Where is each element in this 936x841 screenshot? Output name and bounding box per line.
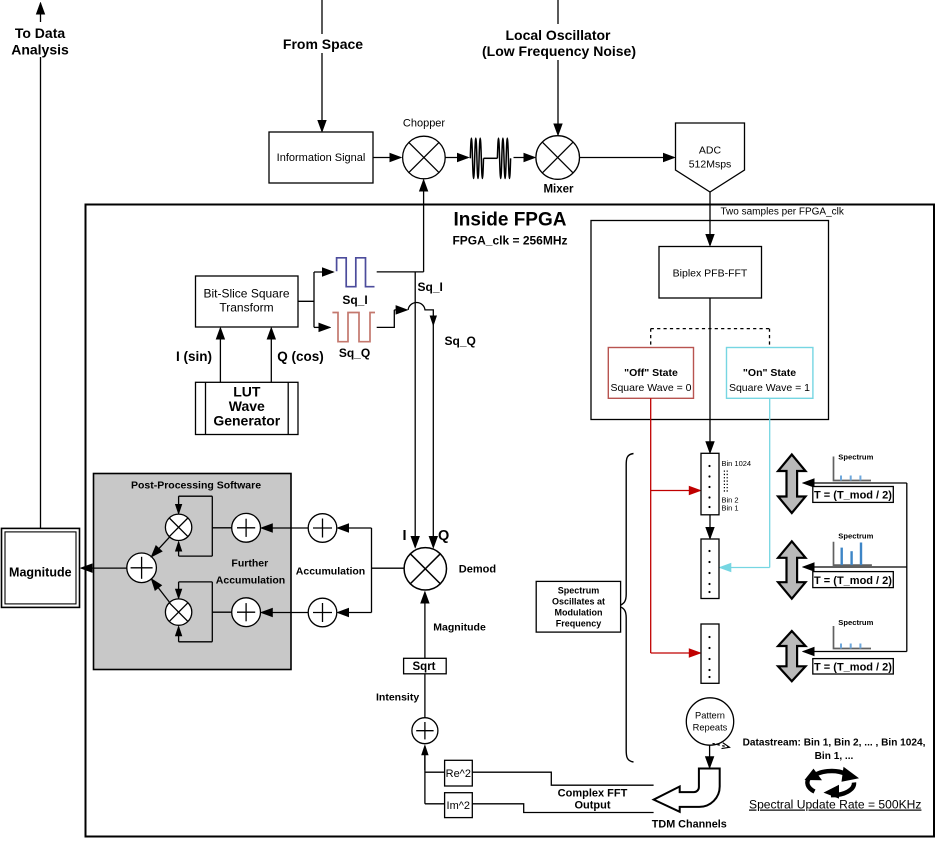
label: Magnitude (wire label) <box>433 622 486 634</box>
svg-text:Oscillates at: Oscillates at <box>552 597 605 607</box>
wire: LUT to Bit-Slice (Q) <box>270 329 272 383</box>
bin register 2 <box>701 539 719 599</box>
svg-text:I (sin): I (sin) <box>176 349 212 364</box>
label: TDM Channels <box>652 819 727 831</box>
svg-text:"Off" State: "Off" State <box>624 367 678 379</box>
wire: net linking gray arrows <box>804 483 907 652</box>
label: From Space <box>281 34 365 53</box>
wire: Sq_I output to chopper and demod I <box>377 181 424 548</box>
svg-text:Spectrum: Spectrum <box>838 618 873 627</box>
label: Two samples per FPGA_clk <box>721 207 845 218</box>
svg-text:Two samples per FPGA_clk: Two samples per FPGA_clk <box>721 207 845 218</box>
svg-text:Spectrum: Spectrum <box>558 586 600 596</box>
wire: filter to mixer <box>514 157 535 159</box>
wire: intensity adder to sqrt <box>424 674 426 718</box>
icon: recycle arrows <box>807 771 854 795</box>
wire: local oscillator into mixer <box>557 0 559 135</box>
svg-text:Magnitude: Magnitude <box>9 566 72 580</box>
block: T = (T_mod / 2) #3 <box>813 659 894 674</box>
adder A2 (further accumulation bottom) <box>232 598 261 627</box>
inner box: FFT state region <box>591 221 829 420</box>
label: Intensity <box>376 692 419 704</box>
gray double arrow 3 <box>778 631 805 681</box>
block: T = (T_mod / 2) #1 <box>813 487 894 503</box>
label: Mixer <box>543 184 574 196</box>
wire: mixer to ADC <box>580 157 675 159</box>
adder A1 (further accumulation top) <box>232 513 261 542</box>
svg-text:T = (T_mod / 2): T = (T_mod / 2) <box>814 662 892 674</box>
svg-text:Spectrum: Spectrum <box>838 531 873 540</box>
svg-text:Transform: Transform <box>219 301 273 315</box>
block: Sqrt <box>404 658 447 674</box>
block: Biplex PFB-FFT <box>659 247 762 299</box>
label: Datastream <box>743 738 926 763</box>
wire: output to data analysis <box>40 4 42 529</box>
svg-text:T = (T_mod / 2): T = (T_mod / 2) <box>814 575 892 587</box>
svg-text:512Msps: 512Msps <box>689 159 732 171</box>
svg-text:Sq_Q: Sq_Q <box>339 346 370 360</box>
adder ACC2 (accumulation bottom) <box>308 598 337 627</box>
mixer symbol <box>536 136 580 180</box>
svg-text:Pattern: Pattern <box>695 711 725 721</box>
label: Further Accumulation <box>216 558 285 587</box>
block: Post-Processing Software (gray region) <box>94 474 292 670</box>
svg-text:Bin 1, ...: Bin 1, ... <box>815 751 854 762</box>
svg-text:Complex FFT: Complex FFT <box>558 788 628 800</box>
svg-text:Further: Further <box>231 558 268 570</box>
svg-text:Bit-Slice Square: Bit-Slice Square <box>203 287 289 301</box>
label: Inside FPGA <box>452 210 567 248</box>
svg-text:Inside FPGA: Inside FPGA <box>454 210 567 231</box>
spectrum chart 1 <box>834 453 874 481</box>
demod multiplier <box>404 548 446 590</box>
wire: A2 to M2 <box>212 611 231 613</box>
node: Pattern Repeats <box>686 698 733 745</box>
svg-text:Modulation: Modulation <box>555 608 603 618</box>
block: Im^2 <box>445 793 473 818</box>
svg-text:I: I <box>403 528 407 544</box>
label: Q <box>438 528 449 544</box>
svg-text:Magnitude: Magnitude <box>433 622 486 634</box>
svg-text:Q (cos): Q (cos) <box>277 349 324 364</box>
block: LUT Wave Generator <box>196 382 299 434</box>
wire: ACC2 to A2 <box>262 612 308 614</box>
gray double arrow 1 <box>778 455 805 514</box>
label: Sq_Q (under waveform) <box>339 346 370 360</box>
adder A3 (combiner) <box>127 553 157 583</box>
block: "On" State (cyan) <box>727 348 813 399</box>
svg-text:FPGA_clk = 256MHz: FPGA_clk = 256MHz <box>452 234 567 248</box>
svg-text:Demod: Demod <box>459 564 496 576</box>
label: Sq_I (under waveform) <box>342 293 367 307</box>
block: Re^2 <box>445 760 473 786</box>
dotted ellipsis between bin labels <box>724 471 727 493</box>
spectrum chart 2 <box>834 531 874 565</box>
gray double arrow 2 <box>778 541 805 598</box>
arrow: TDM channels bent arrow <box>654 769 720 812</box>
svg-text:Spectral Update Rate = 500KHz: Spectral Update Rate = 500KHz <box>749 798 921 812</box>
block: T = (T_mod / 2) #2 <box>813 572 894 588</box>
label: Sq_I (on vertical wire) <box>418 280 443 294</box>
svg-text:Post-Processing Software: Post-Processing Software <box>131 480 261 492</box>
svg-text:To Data: To Data <box>15 25 66 41</box>
svg-text:Analysis: Analysis <box>11 42 69 58</box>
svg-text:Output: Output <box>574 800 610 812</box>
block: ADC 512Msps (pentagon) <box>676 123 745 192</box>
svg-text:Accumulation: Accumulation <box>216 575 285 587</box>
svg-text:Local Oscillator: Local Oscillator <box>505 27 611 43</box>
wire: ADC to Biplex PFB-FFT <box>709 192 711 245</box>
wire: information signal to chopper <box>373 157 401 159</box>
svg-text:Chopper: Chopper <box>403 118 446 130</box>
label: To Data Analysis <box>8 22 73 58</box>
block: "Off" State (red) <box>608 348 693 399</box>
svg-text:Information Signal: Information Signal <box>277 152 366 164</box>
svg-text:Sq_I: Sq_I <box>418 280 443 294</box>
svg-text:"On" State: "On" State <box>743 367 796 379</box>
wire: LUT to Bit-Slice (I) <box>219 329 221 383</box>
svg-text:Q: Q <box>438 528 449 544</box>
block: Spectrum Oscillates at Modulation Frequency <box>536 581 620 632</box>
svg-text:Repeats: Repeats <box>693 723 728 733</box>
svg-text:Im^2: Im^2 <box>447 800 471 812</box>
adder: intensity combiner <box>412 718 438 744</box>
label: Accumulation <box>296 566 365 578</box>
dashed wires: to off/on state boxes <box>651 329 770 347</box>
svg-text:Spectrum: Spectrum <box>838 453 873 462</box>
svg-text:Datastream: Bin 1, Bin 2, ...: Datastream: Bin 1, Bin 2, ... , Bin 1024… <box>743 738 926 749</box>
wire: M2 to A3 <box>152 579 170 602</box>
svg-text:Square Wave = 1: Square Wave = 1 <box>729 382 810 394</box>
wire: sqrt up to demod <box>424 593 426 659</box>
spectrum chart 3 <box>834 618 874 649</box>
svg-text:Sqrt: Sqrt <box>413 661 436 673</box>
wire: bin register 1 to 2 <box>709 515 711 538</box>
svg-text:Intensity: Intensity <box>376 692 419 704</box>
label: Sq_Q (on vertical wire) <box>445 334 476 348</box>
svg-text:Sq_Q: Sq_Q <box>445 334 476 348</box>
label: Demod <box>459 564 496 576</box>
wire: Bit-Slice output split <box>298 272 333 327</box>
svg-text:Accumulation: Accumulation <box>296 566 365 578</box>
feedback loop around multiplier 2 <box>179 582 213 642</box>
svg-text:Bin 1: Bin 1 <box>722 504 739 513</box>
wire: Biplex to bin register 1 <box>709 298 711 452</box>
wire: Re/Im join to intensity adder <box>425 746 445 804</box>
wire: chopper to filter <box>445 157 468 159</box>
svg-text:T = (T_mod / 2): T = (T_mod / 2) <box>814 490 892 502</box>
svg-text:Bin 1024: Bin 1024 <box>722 459 752 468</box>
svg-text:Sq_I: Sq_I <box>342 293 367 307</box>
svg-text:Frequency: Frequency <box>556 619 602 629</box>
bin register 3 <box>701 624 719 683</box>
label: Chopper <box>403 118 446 130</box>
svg-text:Re^2: Re^2 <box>446 768 471 780</box>
filter (band-pass squiggles) <box>470 138 510 178</box>
wire: A1 to M1 <box>212 527 231 529</box>
svg-text:Mixer: Mixer <box>543 184 574 196</box>
svg-text:Square Wave = 0: Square Wave = 0 <box>610 382 691 394</box>
multiplier M2 <box>165 599 191 625</box>
waveform: Sq_Q (salmon square wave) <box>332 313 375 342</box>
label: I <box>403 528 407 544</box>
adder ACC1 (accumulation top) <box>308 514 337 543</box>
svg-text:ADC: ADC <box>699 145 722 157</box>
wire: TDM to Im^2 <box>472 804 653 813</box>
label: Spectral Update Rate = 500KHz <box>749 798 921 812</box>
curly brace <box>618 454 633 763</box>
wire: Sq_Q output with hop over Sq_I <box>377 302 434 547</box>
wire: M1 to A3 <box>152 537 170 557</box>
svg-text:From Space: From Space <box>283 36 363 52</box>
svg-text:TDM Channels: TDM Channels <box>652 819 727 831</box>
red wire: off state to bin registers 1 and 3 <box>651 398 700 653</box>
cyan wire: on state to bin register 2 <box>720 398 769 567</box>
wire: demod output split to accumulators <box>338 528 404 613</box>
label: Complex FFT Output <box>558 788 628 812</box>
label: I (sin) <box>176 349 212 364</box>
chopper mixer symbol <box>403 136 446 179</box>
labels: Bin 1024 / Bin 2 / Bin 1 <box>722 459 752 513</box>
wire: pattern repeats to TDM arrow <box>709 745 711 767</box>
wire: from space input <box>321 0 323 131</box>
wire: ACC1 to A1 <box>262 527 308 529</box>
block: Information Signal <box>269 132 373 183</box>
svg-text:Generator: Generator <box>213 413 280 429</box>
block: Bit-Slice Square Transform <box>196 276 299 327</box>
svg-text:(Low Frequency Noise): (Low Frequency Noise) <box>482 43 636 59</box>
feedback loop around multiplier 1 <box>179 496 213 556</box>
wire: TDM to Re^2 <box>472 772 653 785</box>
bin register 1 <box>701 453 719 515</box>
waveform: Sq_I (blue square wave) <box>337 258 375 287</box>
label: Q (cos) <box>277 349 324 364</box>
FPGA boundary box <box>86 205 935 837</box>
dotted arrow: pattern repeats to datastream <box>713 744 730 748</box>
block: Magnitude (double border) <box>2 528 80 607</box>
wire: A3 to Magnitude output <box>82 567 128 569</box>
svg-text:Biplex PFB-FFT: Biplex PFB-FFT <box>673 268 748 280</box>
label: Local Oscillator (Low Frequency Noise) <box>480 24 638 60</box>
multiplier M1 <box>165 514 191 540</box>
